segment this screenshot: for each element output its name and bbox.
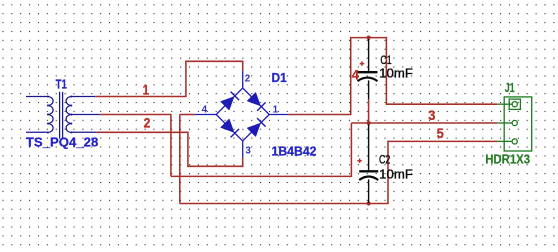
svg-text:1: 1 — [143, 81, 150, 97]
svg-text:4: 4 — [352, 67, 359, 83]
svg-text:J1: J1 — [505, 81, 515, 95]
svg-text:2: 2 — [144, 114, 151, 130]
svg-text:5: 5 — [437, 125, 444, 141]
svg-text:T1: T1 — [56, 76, 67, 91]
svg-text:2: 2 — [245, 74, 251, 85]
svg-text:4: 4 — [202, 104, 208, 115]
svg-text:3: 3 — [245, 145, 251, 156]
svg-text:TS_PQ4_28: TS_PQ4_28 — [26, 135, 98, 150]
svg-text:1: 1 — [273, 104, 279, 115]
svg-text:C1: C1 — [380, 53, 392, 67]
svg-text:HDR1X3: HDR1X3 — [485, 153, 530, 167]
svg-text:10mF: 10mF — [379, 67, 413, 81]
svg-text:3: 3 — [428, 107, 435, 123]
svg-text:D1: D1 — [272, 70, 287, 85]
svg-text:10mF: 10mF — [379, 168, 413, 182]
svg-text:C2: C2 — [379, 152, 391, 166]
svg-text:1B4B42: 1B4B42 — [272, 143, 317, 158]
